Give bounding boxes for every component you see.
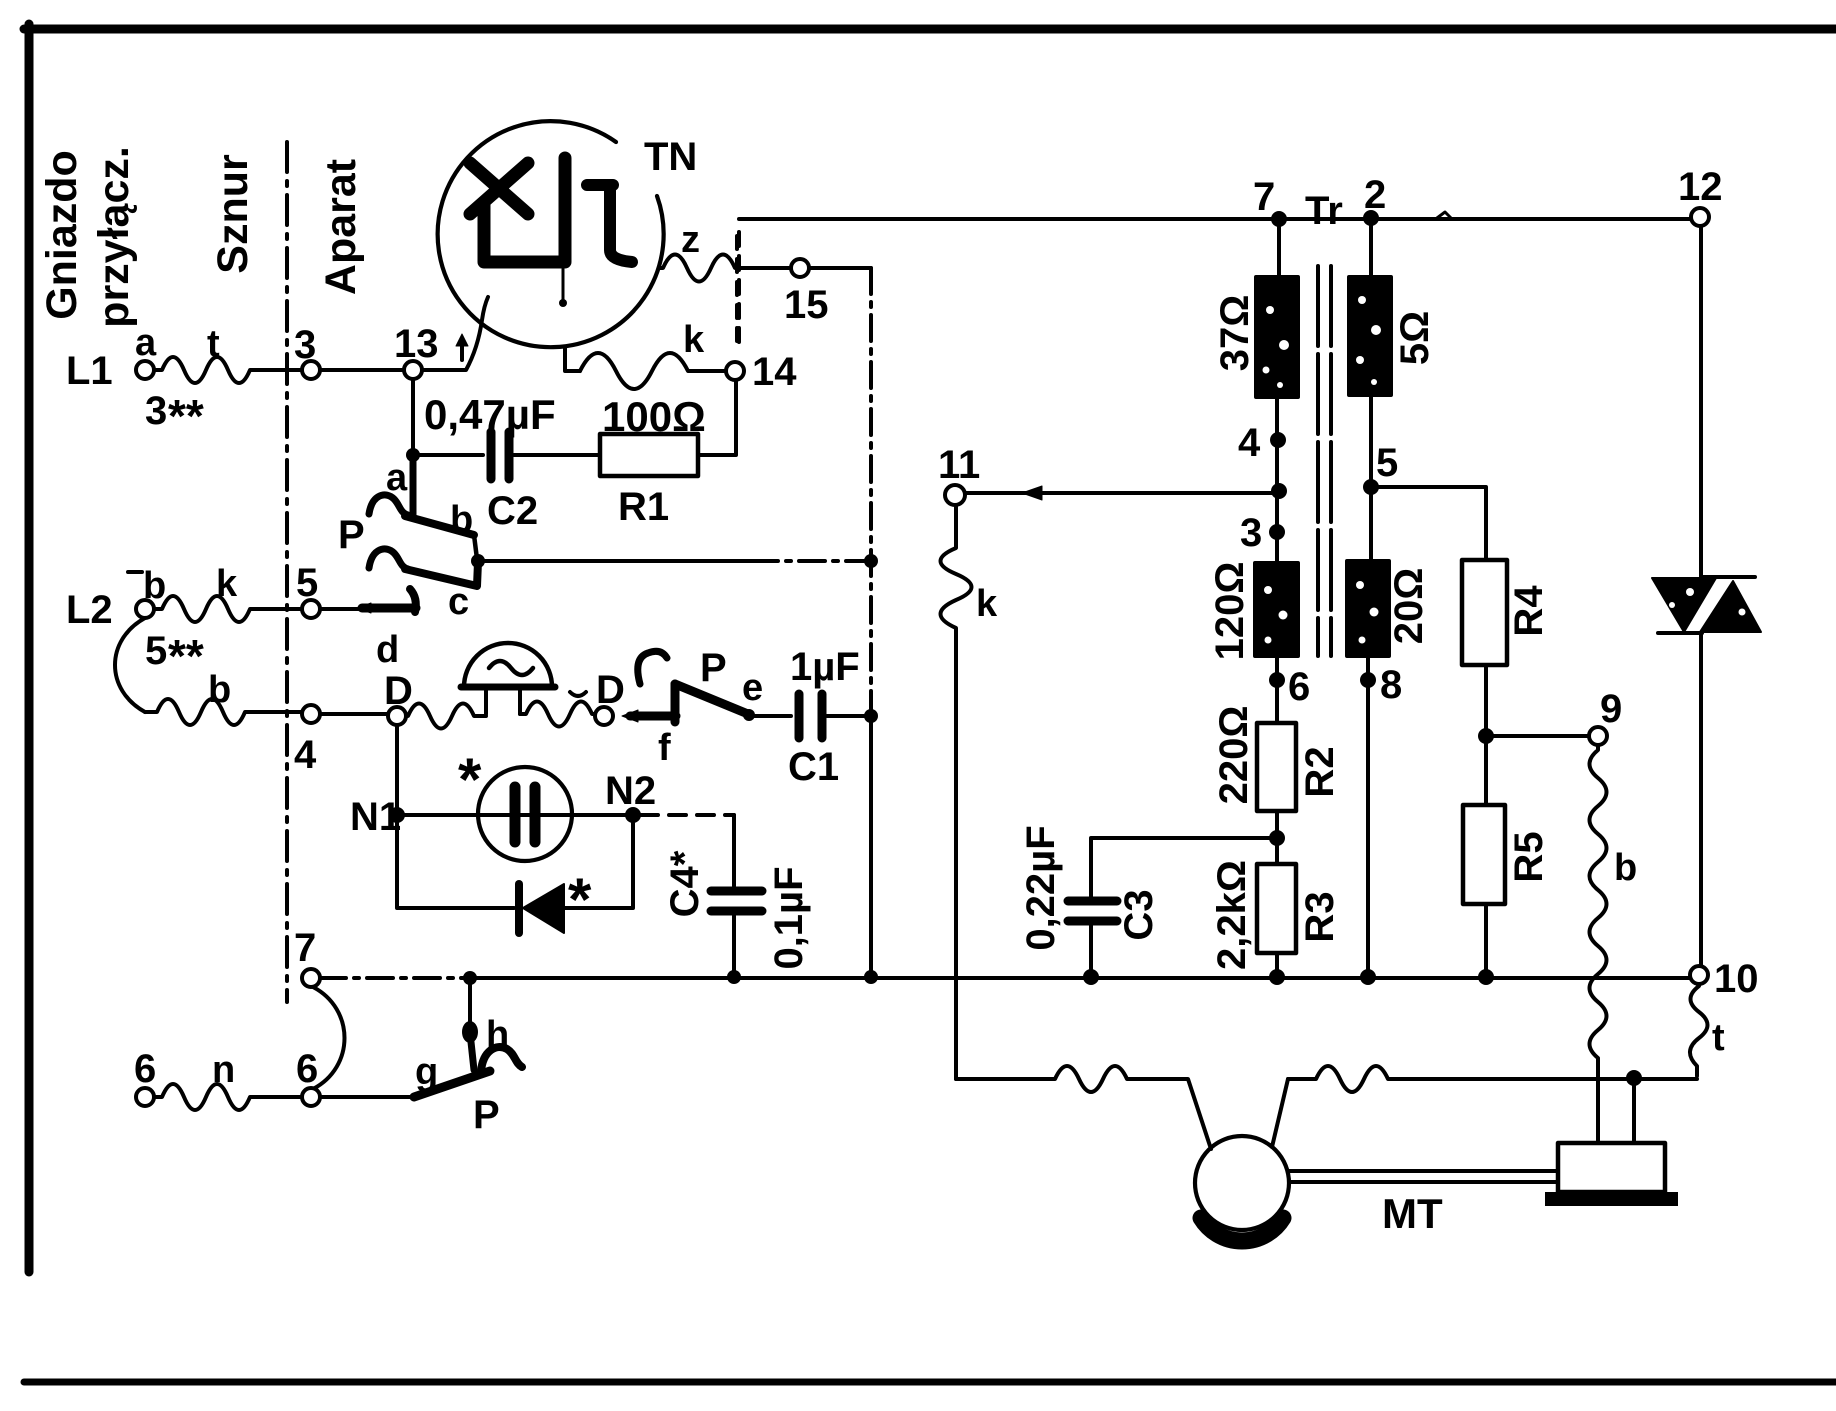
svg-text:przyłącz.: przyłącz. [90, 146, 138, 328]
winding 5ohm [1349, 277, 1437, 395]
winding 120ohm [1208, 562, 1298, 661]
junction dot 3 [1240, 511, 1285, 555]
wire 5 to R4 [1371, 487, 1486, 560]
switch P3 stem lower [471, 1042, 474, 1070]
svg-text:C2: C2 [487, 489, 538, 533]
bell [461, 643, 555, 714]
terminal 15 [784, 259, 829, 327]
svg-text:6: 6 [296, 1047, 318, 1091]
wire node to C2 [413, 453, 483, 457]
dashed wire N2 to C4 [641, 813, 734, 817]
svg-text:R3: R3 [1298, 891, 1342, 942]
terminal 14 [726, 350, 797, 394]
wire 37ohm to 4 to 3 [1275, 397, 1279, 563]
wire 20ohm to 8 to bus [1366, 656, 1370, 977]
MT box verticals [1632, 1078, 1636, 1143]
wire 4-D [320, 712, 388, 716]
resistor R4 [1462, 560, 1551, 665]
svg-text:2: 2 [1364, 173, 1386, 217]
capacitor C2 [424, 391, 556, 533]
arc 7 to 6 [313, 987, 345, 1089]
terminal 13 [394, 322, 439, 379]
cord t (L1 wire) [154, 323, 302, 383]
wire arrester to 10 [1699, 635, 1703, 966]
svg-text:6: 6 [134, 1047, 156, 1091]
svg-text:5: 5 [145, 629, 167, 673]
arrow t at 13 [456, 334, 468, 360]
resistor R3 [1210, 860, 1342, 970]
svg-text:7: 7 [294, 926, 316, 970]
terminal D2 [570, 668, 625, 725]
border frame left [25, 24, 34, 1272]
svg-text:R5: R5 [1507, 831, 1551, 882]
bottom loop left [956, 1066, 1211, 1149]
svg-text:5: 5 [1376, 441, 1398, 485]
terminal 9 [1589, 687, 1622, 745]
MT box hatch [1545, 1192, 1678, 1206]
cord b from 9 down [1590, 745, 1638, 1143]
svg-text:6: 6 [1288, 665, 1310, 709]
svg-text:k: k [216, 563, 238, 605]
svg-text:z: z [681, 219, 700, 261]
svg-text:g: g [415, 1051, 438, 1093]
switch P1 labels [338, 457, 473, 623]
svg-text:D: D [596, 668, 625, 712]
border frame top [24, 25, 1836, 34]
svg-text:N1: N1 [350, 795, 401, 839]
bottom loop right [1288, 1066, 1697, 1092]
winding 37ohm [1213, 277, 1298, 397]
wire to terminal 9 [1486, 734, 1589, 738]
cord k (L2 wire) [154, 563, 302, 622]
capacitor C1 [788, 645, 860, 789]
switch P1 arm lower [405, 562, 478, 586]
svg-text:100Ω: 100Ω [602, 393, 706, 440]
capacitor C3 [1019, 825, 1161, 977]
dial glyph X [470, 163, 528, 214]
junction dot R2/R3 [1269, 830, 1285, 846]
junction dot 11-wire [1271, 483, 1287, 499]
svg-text:D: D [384, 669, 413, 713]
junction dot 4 [1238, 421, 1286, 465]
wire N1 down and right to diode [397, 815, 514, 908]
node N2 [605, 769, 656, 823]
terminal 6 left [134, 1047, 156, 1106]
cord t below 10 [1690, 984, 1725, 1076]
surge arrester top tick [1701, 575, 1755, 579]
svg-text:MT: MT [1382, 1190, 1443, 1237]
svg-text:37Ω: 37Ω [1213, 295, 1257, 372]
wire R3 to bus [1275, 953, 1279, 977]
svg-text:14: 14 [752, 350, 797, 394]
wire 2 down [1369, 218, 1373, 277]
junction node c [471, 554, 485, 568]
winding k [580, 319, 726, 389]
dashed link at x739 [737, 232, 741, 352]
junction dot 8 [1360, 663, 1402, 707]
wire 5ohm to 5 [1369, 395, 1373, 561]
svg-text:Gniazdo: Gniazdo [38, 150, 86, 320]
receiver double line [1289, 1171, 1558, 1182]
svg-text:P: P [338, 513, 365, 557]
svg-text:N2: N2 [605, 769, 656, 813]
svg-text:L2: L2 [66, 588, 113, 632]
svg-text:2,2kΩ: 2,2kΩ [1210, 860, 1254, 970]
svg-text:P: P [473, 1093, 500, 1137]
terminal 11 [938, 443, 980, 505]
junction dot 6 [1269, 665, 1310, 709]
svg-text:**: ** [168, 390, 204, 442]
dashed link at x737 above 14 [735, 236, 739, 350]
node N1 [350, 795, 405, 839]
switch P3 arm g [414, 1071, 490, 1097]
bottom loop right diagonal [1272, 1079, 1288, 1147]
switch P1 hook lower [369, 549, 408, 569]
svg-text:13: 13 [394, 322, 439, 366]
wire 13 down to node [411, 379, 415, 455]
wire 3-13 [320, 368, 404, 372]
wire R5 to bus [1484, 904, 1488, 977]
svg-text:*: * [568, 866, 592, 933]
svg-text:5Ω: 5Ω [1393, 311, 1437, 365]
cord bell to D2 [520, 702, 594, 727]
cord to bell [406, 704, 486, 729]
svg-text:a: a [135, 322, 157, 364]
junction dot bus/switch3 [463, 971, 477, 985]
switch P3 labels [415, 1014, 509, 1137]
terminal 7 [294, 926, 320, 987]
svg-text:10: 10 [1714, 957, 1759, 1001]
transformer core lines [1318, 266, 1331, 656]
svg-text:0,1µF: 0,1µF [767, 866, 811, 969]
svg-text:3: 3 [145, 389, 167, 433]
resistor R2 [1212, 706, 1342, 811]
svg-text:d: d [376, 629, 399, 671]
wire R2-R3 [1275, 811, 1279, 864]
svg-text:9: 9 [1600, 687, 1622, 731]
svg-text:t: t [1712, 1017, 1725, 1059]
wire z-15-corner [737, 266, 871, 270]
svg-text:3: 3 [294, 323, 316, 367]
svg-text:4: 4 [1238, 421, 1261, 465]
top rail to transformer [739, 217, 1691, 221]
arrow on wire 11 [1022, 486, 1042, 500]
arc L2 down [115, 618, 145, 712]
svg-text:4: 4 [294, 733, 317, 777]
dial glyph U [484, 158, 565, 262]
junction dot 5 [1363, 441, 1398, 495]
winding z [659, 219, 737, 282]
junction dot bus/x871 [864, 970, 878, 984]
switch P2 arm [675, 684, 748, 714]
svg-text:b: b [143, 565, 166, 607]
switch P3 hook h [481, 1047, 522, 1071]
svg-text:t: t [207, 323, 220, 365]
wire e to C1 [754, 714, 791, 718]
terminal D [384, 669, 413, 725]
svg-text:c: c [448, 581, 469, 623]
dial drop line [562, 269, 565, 300]
svg-text:0,22µF: 0,22µF [1019, 825, 1063, 950]
wire diode to N2 [564, 823, 633, 908]
wire 12 vertical [1699, 216, 1703, 576]
terminal L2/b [66, 565, 204, 682]
switch P2 contact f bar [622, 684, 676, 769]
junction dot loop/MT [1626, 1070, 1642, 1086]
svg-text:120Ω: 120Ω [1208, 562, 1252, 661]
svg-text:b: b [1614, 847, 1637, 889]
svg-text:f: f [658, 727, 671, 769]
svg-text:20Ω: 20Ω [1387, 568, 1431, 645]
dial winding k lead [565, 347, 580, 371]
switch P1 stem [410, 455, 417, 515]
wire 7 down [1277, 219, 1281, 277]
resistor R5 [1463, 805, 1551, 904]
coil k vertical [941, 505, 999, 1079]
terminal 10 [1690, 957, 1759, 1001]
svg-text:e: e [742, 667, 763, 709]
switch P1 link b-c [474, 535, 477, 559]
junction dot R5/bus [1478, 969, 1494, 985]
svg-text:7: 7 [1253, 175, 1275, 219]
vertical x871 solid lower [869, 716, 873, 977]
svg-text:h: h [486, 1014, 509, 1056]
junction dot C1/x871 [864, 709, 878, 723]
svg-text:R4: R4 [1507, 585, 1551, 637]
winding 20ohm [1347, 561, 1431, 656]
svg-text:3: 3 [1240, 511, 1262, 555]
svg-text:Sznur: Sznur [209, 154, 257, 274]
svg-text:L1: L1 [66, 349, 113, 393]
svg-text:C3: C3 [1117, 889, 1161, 940]
junction dot 7 top [1253, 175, 1287, 227]
svg-text:C1: C1 [788, 745, 839, 789]
switch P2 hook e [638, 651, 667, 684]
wire C3 branch [1091, 838, 1277, 897]
discharge tube N [478, 767, 572, 861]
switch P2 labels [700, 646, 763, 709]
switch P3 stem [468, 984, 472, 1024]
junction node under 13 [406, 448, 420, 462]
junction dot C4/bus [727, 970, 741, 984]
junction dot 2 top [1363, 173, 1386, 226]
terminal 12 [1678, 165, 1723, 226]
svg-text:b: b [450, 499, 473, 541]
svg-text:11: 11 [938, 443, 980, 487]
svg-text:TN: TN [644, 135, 697, 179]
terminal 6 right [296, 1047, 320, 1106]
MT box [1558, 1143, 1665, 1192]
svg-text:8: 8 [1380, 663, 1402, 707]
wire 120ohm to 6 to R2 [1275, 656, 1279, 723]
cord n [154, 1049, 302, 1110]
vertical x871 dash-dot [869, 268, 873, 716]
svg-text:Aparat: Aparat [317, 159, 365, 295]
switch P3 pivot dot [462, 1021, 478, 1043]
wire 11 to transformer [965, 491, 1279, 495]
svg-text:220Ω: 220Ω [1212, 706, 1256, 805]
wire R4 to node 9 [1484, 665, 1488, 805]
svg-text:12: 12 [1678, 165, 1723, 209]
bus dash-dot segment [320, 976, 470, 980]
junction dot R3/bus [1269, 969, 1285, 985]
junction dot R4/9 [1478, 728, 1494, 744]
diode with star [519, 866, 592, 933]
dial glyph 1 [587, 185, 632, 262]
terminal 4 [294, 705, 320, 777]
svg-text:**: ** [168, 630, 204, 682]
svg-text:P: P [700, 646, 727, 690]
boundary dash-dot line Sznur/Aparat [285, 142, 289, 1002]
surge arrester triangle 1 [1652, 578, 1716, 632]
wire c to right (dash-dot) [752, 559, 871, 563]
svg-text:0,47µF: 0,47µF [424, 391, 556, 438]
bump on top rail [1437, 212, 1451, 218]
terminal 5 [296, 561, 320, 618]
wire C1 to x871 [827, 714, 871, 718]
microphone hatch [1201, 1218, 1283, 1241]
border frame bottom [24, 1379, 1836, 1386]
terminal 3 [294, 323, 320, 379]
svg-text:k: k [976, 583, 998, 625]
wire 13 to dial [422, 297, 488, 370]
main bus line [470, 976, 1690, 980]
svg-text:1µF: 1µF [790, 645, 860, 689]
wire 5 to contact d [320, 607, 360, 611]
wire D down to N1 [395, 725, 399, 815]
resistor R1 [600, 393, 706, 529]
svg-text:b: b [208, 669, 231, 711]
svg-text:R2: R2 [1298, 746, 1342, 797]
svg-text:a: a [386, 457, 408, 499]
microphone circle [1195, 1136, 1289, 1230]
capacitor C4 [663, 815, 811, 977]
contact d [357, 589, 416, 671]
dial TN circle [438, 121, 664, 347]
svg-text:Tr: Tr [1305, 189, 1343, 233]
svg-text:n: n [212, 1049, 235, 1091]
winding texture speckles [1263, 296, 1746, 644]
surge arrester triangle 2 [1700, 581, 1761, 632]
svg-text:15: 15 [784, 283, 829, 327]
surge arrester bottom tick [1658, 631, 1702, 635]
junction dot x871/y561 [864, 554, 878, 568]
junction dot C3/bus [1083, 969, 1099, 985]
svg-text:*: * [458, 746, 482, 813]
switch P1 arm b [405, 516, 474, 535]
switch P1 hook a [369, 495, 408, 515]
svg-text:5: 5 [296, 561, 318, 605]
wire c to right (solid) [478, 559, 752, 563]
column label Gniazdo przylacz. [38, 146, 138, 328]
cord b (second wire) [145, 669, 302, 725]
svg-text:k: k [683, 319, 705, 361]
terminal L1/a [66, 322, 204, 442]
svg-text:C4*: C4* [663, 850, 707, 917]
wire 6 to g-contact [320, 1095, 418, 1099]
svg-text:R1: R1 [618, 485, 669, 529]
wire R1 to 14 [698, 380, 736, 455]
junction dot 8/bus [1360, 969, 1376, 985]
wire C2-R1 [514, 453, 600, 457]
wire N1-N2 [397, 813, 633, 817]
